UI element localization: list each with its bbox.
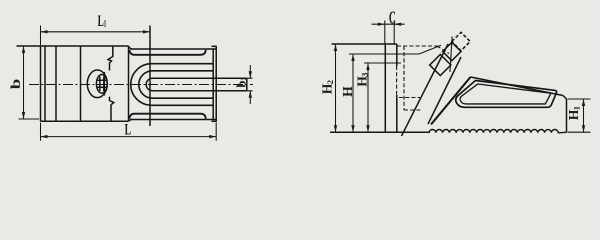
arrow L1 left bbox=[41, 30, 48, 33]
label H2 bbox=[320, 80, 335, 94]
wire: inner vertical line x=80.5 bbox=[80, 46, 82, 121]
U slot inner bbox=[139, 71, 213, 98]
arrow H2 top bbox=[334, 44, 337, 51]
arrow C left bbox=[378, 23, 385, 26]
arrow H1 top bbox=[582, 99, 585, 106]
dimension b1: extensions bbox=[247, 78, 253, 91]
arrow H1 bottom bbox=[582, 125, 585, 132]
wire: bottom inner channel line bbox=[130, 114, 206, 119]
ball end detail: outer ellipse bbox=[87, 70, 107, 98]
hidden slot: mid dashed bbox=[399, 97, 420, 99]
dimension C: extension lines bbox=[385, 21, 394, 44]
wedge incline face bbox=[431, 77, 471, 125]
wire: bottom step bbox=[129, 120, 133, 122]
screw shaft edge 2 bbox=[428, 57, 461, 124]
dimension b1: line segments bbox=[249, 65, 251, 104]
wire: inner vertical line x=45 bbox=[44, 46, 46, 121]
pocket outer outline bbox=[456, 81, 557, 108]
dimension H line bbox=[352, 54, 354, 132]
hidden slot: top dashed bbox=[397, 45, 437, 47]
svg-text:2: 2 bbox=[325, 80, 335, 84]
dimension L1: extension left bbox=[40, 26, 42, 46]
hidden diagonal to head bbox=[437, 46, 449, 54]
block right edge upper bbox=[396, 44, 398, 66]
dimension H1: bottom extension bbox=[568, 131, 591, 133]
label b bbox=[8, 79, 24, 90]
wire: body outline left edge bbox=[40, 46, 42, 121]
svg-text:1: 1 bbox=[104, 18, 107, 29]
svg-text:H: H bbox=[340, 86, 355, 97]
arm top line to stud bbox=[419, 45, 441, 54]
ball end detail: slot cross bbox=[97, 77, 107, 92]
wire: right edge inner bbox=[212, 49, 214, 120]
arrowheads bbox=[22, 23, 585, 139]
svg-text:L: L bbox=[125, 120, 132, 138]
label L1 bbox=[98, 13, 107, 30]
svg-text:1: 1 bbox=[571, 106, 581, 110]
hidden slot: bottom dashed bbox=[404, 109, 422, 111]
svg-text:b: b bbox=[8, 79, 24, 90]
base ground line bbox=[330, 131, 430, 133]
stud end through nut bbox=[450, 37, 452, 73]
label L bbox=[125, 120, 132, 138]
screw shaft edge 1 bbox=[402, 44, 449, 136]
svg-text:3: 3 bbox=[360, 73, 370, 77]
U slot outer bbox=[131, 64, 213, 106]
dimension L: line bbox=[41, 136, 217, 138]
wire: bottom edge left portion bbox=[41, 120, 129, 122]
wedge right edge bbox=[566, 99, 568, 132]
wedge top right chamfer bbox=[563, 96, 567, 100]
pocket inner outline bbox=[460, 84, 551, 104]
arrow L right bbox=[209, 135, 216, 138]
svg-text:1: 1 bbox=[239, 77, 248, 81]
dimension C: line bbox=[372, 23, 405, 25]
arrow H bottom bbox=[351, 125, 354, 132]
arrow b bottom bbox=[22, 112, 25, 119]
arrow H top bbox=[351, 54, 354, 61]
wire: top right corner connector bbox=[212, 45, 217, 47]
wire: step to right portion top bbox=[129, 46, 133, 49]
wire: top edge right portion bbox=[131, 48, 216, 50]
dimension b: line bbox=[23, 46, 25, 119]
block right edge hidden middle bbox=[396, 66, 398, 95]
block top edge + H2 extension bbox=[332, 43, 397, 45]
dimension H extension bbox=[349, 53, 419, 55]
break line zigzag top bbox=[108, 46, 113, 70]
wire: section boundary x=128.5 bbox=[128, 46, 130, 121]
ball end detail: right face line bbox=[103, 72, 105, 96]
label b1 bbox=[235, 77, 249, 88]
arrow b1 top bbox=[249, 71, 252, 78]
wire: bottom right corner connector bbox=[212, 120, 217, 122]
dimension b: bottom extension bbox=[19, 118, 40, 120]
dimension L: extension left bbox=[40, 123, 42, 141]
arrow L1 right bbox=[143, 30, 150, 33]
wedge top edge bbox=[471, 77, 564, 96]
rod end cap bbox=[246, 78, 248, 91]
nut solid diamond A bbox=[430, 54, 451, 75]
arrow H3 bottom bbox=[366, 125, 369, 132]
label H1 bbox=[566, 106, 581, 120]
arrow b top bbox=[22, 46, 25, 53]
hidden slot: vertical dashed bbox=[403, 46, 405, 110]
wire: section line x=150 full height bbox=[149, 26, 151, 127]
svg-text:L: L bbox=[98, 13, 104, 30]
dimension L: extension right bbox=[215, 123, 217, 141]
wire: right edge outer double bbox=[215, 46, 217, 121]
block left edge bbox=[384, 44, 386, 132]
dimension H1: line bbox=[583, 99, 585, 132]
svg-text:C: C bbox=[389, 8, 396, 28]
arrow L left bbox=[41, 135, 48, 138]
rod (screw shank) bbox=[146, 78, 247, 91]
nut hidden diamond C bbox=[452, 32, 470, 50]
serrated bottom bbox=[429, 130, 567, 133]
dimension H3 line bbox=[367, 63, 369, 132]
dimension L1: line bbox=[41, 31, 151, 33]
dimension H1: top extension bbox=[568, 98, 591, 100]
arrow H3 top bbox=[366, 63, 369, 70]
wire: inner vertical line x=56 bbox=[55, 46, 57, 121]
dimension H3 extension bbox=[364, 62, 401, 64]
ball end detail: inner ellipse bbox=[96, 75, 107, 94]
arrow b1 bottom bbox=[249, 91, 252, 98]
centerline horizontal bbox=[29, 84, 253, 86]
block right edge lower bbox=[396, 95, 398, 132]
label C bbox=[389, 8, 396, 28]
label H3 bbox=[355, 73, 370, 87]
nut solid diamond B bbox=[443, 42, 461, 60]
dimension H2 line bbox=[335, 44, 337, 132]
arrow H2 bottom bbox=[334, 125, 337, 132]
wire: top inner channel line bbox=[130, 50, 206, 55]
wire: bottom edge right portion bbox=[131, 119, 216, 121]
wire: top edge left portion bbox=[17, 45, 129, 47]
arrow C right bbox=[394, 23, 401, 26]
label H bbox=[340, 86, 355, 97]
break line zigzag bottom bbox=[110, 97, 114, 122]
